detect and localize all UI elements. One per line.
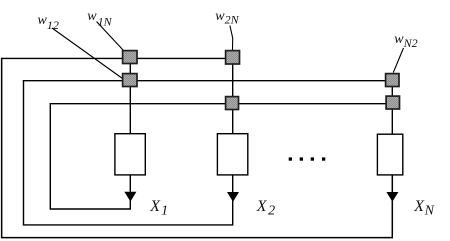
bus wire 2 [23,80,386,82]
arrowhead neuron 2 output [227,192,239,202]
bus wire 1 [1,57,226,59]
svg-text:wN2: wN2 [394,32,417,50]
wire column 2 through weights to neuron 2 [232,50,234,134]
leader line label w1N [97,22,124,51]
svg-text:X2: X2 [256,198,275,219]
weight square w2N (column 2, bus 1) [226,51,240,64]
weight square column N bus 3 [386,96,399,109]
leader line label wN2 [393,48,403,73]
svg-text:XN: XN [413,198,434,219]
arrowhead neuron 1 output [124,192,136,202]
weight square w12 (column 1, bus 2) [123,74,137,87]
wire column N through weights to neuron N [391,74,393,134]
neuron box 2 [217,134,247,175]
bus wire 3 [50,103,386,105]
feedback wire neuron 2 output to bus 2 (middle loop) [24,80,233,225]
svg-text:w1N: w1N [87,9,112,28]
weight square w1N (column 1, bus 1) [123,51,137,64]
weight square column 2 bus 3 [226,97,239,110]
svg-text:w12: w12 [38,13,59,32]
svg-text:w2N: w2N [215,9,239,27]
feedback wire neuron N output to bus 1 (outer loop) [2,58,393,238]
feedback wire neuron 1 output to bus 3 (inner loop) [50,103,130,209]
arrowhead neuron N output [386,192,398,202]
svg-text:X1: X1 [149,198,168,219]
wire column 1 through weights to neuron 1 [129,52,131,134]
neuron box N [377,134,402,175]
leader line label w2N [230,26,233,51]
leader line label w12 [52,28,123,79]
ellipsis dots between neuron 2 and neuron N [289,157,326,160]
weight square wN2 (column N, bus 2) [386,74,399,87]
neuron box 1 [115,134,145,175]
